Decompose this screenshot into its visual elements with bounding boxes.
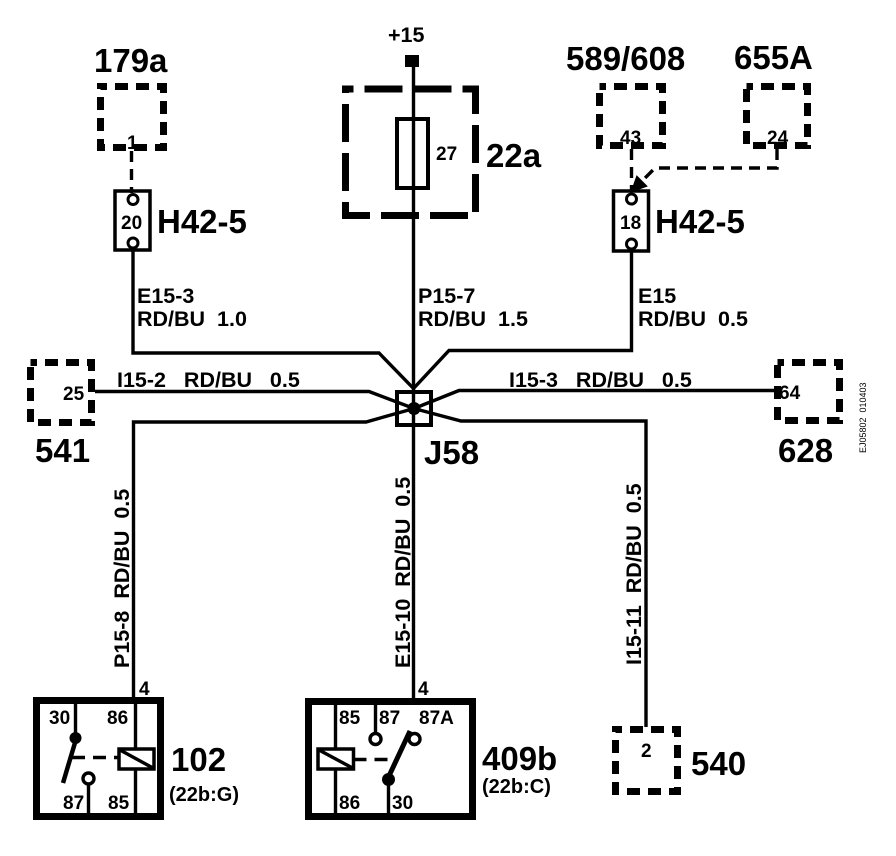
svg-text:87A: 87A bbox=[419, 708, 454, 729]
relay 102 pin30 lead bbox=[74, 701, 77, 734]
relay 102 pin87 terminal circle bbox=[83, 773, 94, 784]
wire E15 (fuse 18 to J58) bbox=[414, 251, 632, 389]
relay 409b pin86 lead bbox=[334, 769, 337, 816]
relay 409b actuator dashed link bbox=[354, 758, 393, 761]
svg-text:25: 25 bbox=[63, 384, 85, 405]
svg-text:2: 2 bbox=[641, 741, 652, 762]
wire P15-7 (from +15 through fuse 22a to junction J58) bbox=[412, 67, 415, 408]
relay 409b outline bbox=[309, 702, 473, 817]
svg-text:J58: J58 bbox=[424, 434, 479, 471]
arrowhead onto fuse 18 bbox=[632, 177, 646, 191]
junction J58 dot bbox=[408, 402, 421, 415]
svg-text:85: 85 bbox=[108, 793, 130, 814]
connector 541 box bbox=[31, 363, 92, 423]
wire I15-11 (J58 to 540) bbox=[414, 409, 646, 728]
relay 409b switch pivot dot bbox=[382, 773, 395, 786]
svg-text:589/608: 589/608 bbox=[566, 40, 685, 77]
svg-text:I15-2 RD/BU 0.5: I15-2 RD/BU 0.5 bbox=[117, 368, 300, 392]
svg-text:I15-3 RD/BU 0.5: I15-3 RD/BU 0.5 bbox=[509, 368, 692, 392]
svg-text:628: 628 bbox=[778, 432, 833, 469]
dashed wire 589/608 pin43 to fuse H42-5/18 bbox=[630, 149, 633, 190]
svg-text:18: 18 bbox=[620, 213, 641, 234]
svg-text:E15-10 RD/BU 0.5: E15-10 RD/BU 0.5 bbox=[391, 477, 415, 668]
svg-text:RD/BU 0.5: RD/BU 0.5 bbox=[638, 307, 748, 331]
relay 409b pin87 terminal circle bbox=[370, 734, 381, 745]
svg-text:541: 541 bbox=[35, 432, 90, 469]
svg-text:P15-7: P15-7 bbox=[418, 284, 475, 308]
svg-text:P15-8 RD/BU 0.5: P15-8 RD/BU 0.5 bbox=[110, 489, 134, 668]
relay 102 actuator dashed link bbox=[72, 756, 118, 759]
svg-text:85: 85 bbox=[339, 708, 361, 729]
relay 409b coil diagonal bbox=[319, 750, 353, 768]
svg-text:E15: E15 bbox=[638, 284, 676, 308]
wire E15-3 (fuse 20 to J58) bbox=[133, 250, 414, 389]
svg-text:540: 540 bbox=[691, 745, 746, 782]
svg-text:22a: 22a bbox=[486, 137, 542, 174]
relay 409b switch arm bbox=[389, 731, 411, 777]
relay 409b pin87 lead bbox=[374, 702, 377, 734]
fusebox 22a outline bbox=[346, 89, 476, 216]
fuse 20 top terminal bbox=[128, 195, 138, 205]
+15 terminal square bbox=[405, 55, 419, 67]
relay 102 switch pivot dot bbox=[70, 732, 82, 744]
svg-text:(22b:G): (22b:G) bbox=[169, 784, 239, 806]
relay 102 pin87 lead bbox=[87, 784, 90, 816]
connector 179a box bbox=[101, 87, 164, 148]
svg-text:H42-5: H42-5 bbox=[157, 203, 247, 240]
fuse H42-5 no.18 body bbox=[614, 191, 649, 251]
svg-text:86: 86 bbox=[339, 793, 360, 814]
fuse element 27 symbol bbox=[397, 119, 428, 188]
svg-text:4: 4 bbox=[139, 679, 150, 700]
relay 409b pin87A terminal circle bbox=[409, 734, 420, 745]
connector 655A box bbox=[747, 87, 808, 146]
connector 589/608 box bbox=[600, 87, 663, 146]
svg-text:179a: 179a bbox=[94, 42, 168, 79]
connector 540 box bbox=[616, 730, 678, 792]
svg-text:4: 4 bbox=[418, 679, 429, 700]
svg-text:I15-11 RD/BU 0.5: I15-11 RD/BU 0.5 bbox=[622, 483, 646, 665]
relay 102 outline bbox=[37, 701, 161, 817]
svg-text:20: 20 bbox=[121, 213, 142, 234]
relay 102 coil diagonal bbox=[120, 750, 153, 768]
svg-text:409b: 409b bbox=[482, 740, 557, 777]
svg-text:27: 27 bbox=[436, 144, 457, 165]
relay 102 pin86 lead bbox=[134, 701, 137, 749]
svg-text:1: 1 bbox=[127, 133, 138, 154]
relay 102 pin85 lead bbox=[134, 769, 137, 816]
svg-text:E15-3: E15-3 bbox=[137, 284, 194, 308]
svg-text:43: 43 bbox=[620, 128, 641, 149]
relay 409b pin85 lead bbox=[334, 702, 337, 749]
svg-text:(22b:C): (22b:C) bbox=[482, 776, 551, 798]
svg-text:87: 87 bbox=[63, 793, 84, 814]
wire I15-3 (J58 to 628) bbox=[414, 391, 774, 409]
dashed wire 655A pin24 to fuse H42-5/18 bbox=[637, 149, 777, 186]
svg-text:655A: 655A bbox=[734, 39, 813, 76]
fuse 20 bottom terminal bbox=[128, 238, 138, 248]
relay 409b pin30 lead bbox=[387, 780, 390, 817]
svg-text:24: 24 bbox=[767, 128, 789, 149]
fuse 18 bottom terminal bbox=[627, 239, 637, 249]
fuse 18 top terminal bbox=[627, 194, 637, 204]
svg-text:H42-5: H42-5 bbox=[655, 203, 745, 240]
relay 409b coil box bbox=[318, 749, 354, 769]
svg-text:64: 64 bbox=[779, 383, 801, 404]
connector 628 box bbox=[778, 363, 840, 421]
junction J58 box bbox=[397, 392, 431, 425]
fuse H42-5 no.20 body bbox=[115, 191, 150, 250]
wire I15-2 (541 to J58) bbox=[95, 392, 414, 409]
dashed wire 179a pin1 to fuse H42-5/20 bbox=[130, 151, 133, 193]
relay 102 coil box bbox=[119, 749, 154, 769]
svg-text:30: 30 bbox=[49, 708, 70, 729]
svg-text:EJ05802 010403: EJ05802 010403 bbox=[858, 382, 868, 453]
svg-text:RD/BU 1.5: RD/BU 1.5 bbox=[418, 307, 528, 331]
svg-text:RD/BU 1.0: RD/BU 1.0 bbox=[137, 307, 247, 331]
svg-text:87: 87 bbox=[379, 708, 400, 729]
svg-text:30: 30 bbox=[392, 793, 413, 814]
wire E15-10 (from J58 down to relay 409b pin 87A) bbox=[412, 408, 415, 699]
svg-text:+15: +15 bbox=[388, 23, 425, 47]
svg-text:86: 86 bbox=[107, 708, 128, 729]
svg-text:102: 102 bbox=[171, 741, 226, 778]
relay 102 switch arm bbox=[63, 736, 77, 783]
wire P15-8 (J58 to relay 102) bbox=[134, 409, 415, 700]
